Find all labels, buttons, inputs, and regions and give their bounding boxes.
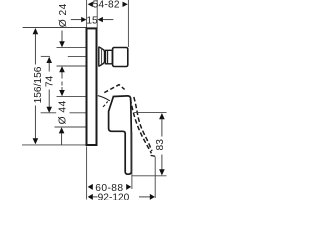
dimension Ø24 stub above with down arrow [61, 31, 63, 43]
dimension 156/156 vertical line lower segment with down arrow [34, 106, 36, 139]
pivot axis extension line left of plate [41, 112, 57, 114]
svg-text:54-82: 54-82 [93, 0, 120, 11]
dimension 83 vertical line upper segment with up arrow [159, 113, 165, 119]
spindle band [106, 50, 113, 64]
svg-text:Ø 24: Ø 24 [58, 3, 69, 27]
dimension Ø44 down arrow above upper line [59, 90, 65, 96]
dimension 156/156 vertical line upper segment with up arrow [33, 28, 39, 34]
spindle band inner line [107, 51, 109, 64]
dashed swivel arc near hub [103, 101, 108, 106]
extension line from grip bottom going right [132, 175, 167, 177]
svg-text:Ø 44: Ø 44 [57, 100, 68, 124]
dimension 54-82 right arrow [123, 2, 128, 7]
dashed handle front edge rotated down position [134, 97, 152, 151]
dimension 60-88 left arrow [88, 184, 93, 190]
dimension Ø24 stub below with up arrow, continuing down to Ø44 [59, 66, 65, 72]
cartridge dome boss on plate [99, 47, 105, 66]
dashed handle tip cap [151, 154, 156, 157]
escutcheon plate side view [87, 28, 97, 145]
dimension 15 right leader with left-pointing arrow [103, 19, 113, 21]
dimension 92-120 left arrow with tail [88, 194, 93, 200]
dimension 60-88 right arrow [126, 184, 131, 190]
extension line from plate back face up to image top [86, 0, 88, 28]
svg-text:156/156: 156/156 [33, 66, 44, 103]
dome inner detail line [101, 48, 103, 66]
extension line from plate bottom going left [22, 144, 87, 146]
dimension 54-82 left arrow [88, 2, 93, 7]
dashed handle outline rotated up position [104, 85, 124, 93]
svg-text:92-120: 92-120 [98, 193, 130, 200]
dimension 15 left leader with right-pointing arrow [71, 19, 82, 21]
dimension 92-120 right arrow with tail [150, 194, 155, 200]
extension line from dashed handle tip down [154, 157, 156, 198]
pivot axis extension line right of handle [134, 112, 167, 114]
dimension Ø44 upper extension line [57, 95, 87, 97]
dimension Ø24 upper extension line [57, 47, 87, 49]
dimension Ø44 lower extension line [55, 126, 87, 128]
dimension 74 vertical line upper segment with up arrow [46, 57, 52, 63]
svg-text:15: 15 [86, 15, 98, 26]
extension line from knob front face up to image top [127, 0, 129, 47]
centerline of cartridge axis [41, 55, 50, 57]
solid arc from plate to handle hub [98, 96, 110, 101]
dashed handle back edge rotated down position [130, 99, 151, 153]
extension line from plate top going left [23, 27, 87, 29]
extension line from plate front face up to image top [96, 0, 98, 28]
wall extension line below plate [86, 147, 88, 200]
dimension 74 vertical line lower segment with down arrow [48, 90, 50, 108]
handle lever solid outline [109, 96, 132, 174]
svg-text:83: 83 [155, 139, 166, 151]
dimension 83 vertical line lower segment with down arrow [161, 155, 163, 171]
dimension Ø24 lower extension line [57, 65, 87, 67]
extension line from hub front face down [131, 132, 133, 189]
handle knob cap [113, 48, 128, 67]
dimension Ø44 up arrow below lower line with stub to bottom ext line [59, 127, 65, 133]
svg-text:74: 74 [44, 76, 55, 88]
